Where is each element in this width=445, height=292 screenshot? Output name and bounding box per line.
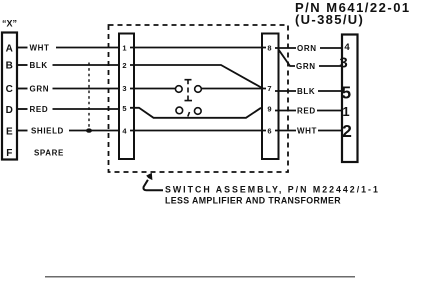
svg-text:SPARE: SPARE — [34, 149, 64, 158]
svg-text:GRN: GRN — [296, 62, 316, 71]
svg-text:D: D — [6, 105, 13, 116]
svg-text:2: 2 — [342, 121, 352, 141]
svg-text:B: B — [6, 61, 13, 72]
wire pin4 to pin6 — [130, 130, 266, 132]
svg-text:8: 8 — [267, 44, 271, 53]
wire ORN to pin 4 — [320, 47, 346, 49]
svg-text:WHT: WHT — [30, 44, 50, 53]
wire pin7 to BLK — [275, 90, 296, 92]
svg-text:6: 6 — [267, 127, 271, 136]
junction dot shield — [86, 128, 92, 132]
svg-text:9: 9 — [267, 105, 271, 114]
svg-text:BLK: BLK — [30, 61, 48, 70]
svg-text:1: 1 — [342, 104, 349, 119]
svg-text:LESS AMPLIFIER AND TRANSFORMER: LESS AMPLIFIER AND TRANSFORMER — [165, 196, 341, 206]
wire pin1 to pin8 — [130, 47, 266, 49]
wire pin5 to pin9 (bypass) — [130, 108, 261, 118]
tick pin B — [17, 64, 28, 66]
wire contact to pin7 — [201, 88, 266, 90]
svg-text:C: C — [6, 84, 13, 95]
wire pin6 to WHT — [275, 130, 296, 132]
switch contact top-left — [175, 86, 182, 93]
switch assembly dashed box — [109, 25, 289, 172]
wire pin2 to pin7 — [130, 65, 263, 89]
tick pin D — [17, 108, 28, 110]
wire D-RED to pin 5 — [53, 108, 123, 110]
svg-text:WHT: WHT — [297, 127, 317, 136]
svg-text:5: 5 — [341, 83, 351, 103]
actuator link dash — [187, 88, 189, 93]
svg-text:SHIELD: SHIELD — [31, 127, 64, 136]
connector X body — [2, 33, 17, 160]
wire pin3 to contact — [130, 88, 176, 90]
svg-text:4: 4 — [344, 42, 350, 53]
svg-text:E: E — [6, 127, 13, 138]
wire GRN to pin 3 — [319, 65, 346, 67]
connector bar switch output — [262, 34, 279, 160]
tick pin C — [17, 88, 28, 90]
svg-text:3: 3 — [339, 55, 347, 72]
callout leader line — [143, 180, 163, 191]
actuator link lower dash — [188, 112, 190, 117]
svg-text:(U-385/U): (U-385/U) — [295, 12, 364, 27]
actuator link top T — [185, 80, 192, 85]
svg-text:1: 1 — [122, 44, 126, 53]
svg-text:2: 2 — [122, 61, 126, 70]
svg-text:3: 3 — [122, 84, 126, 93]
wire WHT to pin 2 — [318, 130, 346, 132]
svg-text:SWITCH ASSEMBLY, P/N M22442/1-: SWITCH ASSEMBLY, P/N M22442/1-1 — [165, 185, 380, 195]
wire pin8 branch to GRN (diagonal) — [279, 50, 296, 67]
page rule line — [45, 276, 355, 278]
wire E-SHIELD to pin 4 — [69, 130, 123, 132]
wire A-WHT to pin 1 — [56, 47, 123, 49]
connector P/N M641/22-01 body — [342, 35, 358, 163]
svg-text:“X”: “X” — [2, 19, 17, 29]
actuator link bottom T — [185, 96, 193, 101]
switch contact top-right — [195, 86, 202, 93]
svg-text:5: 5 — [122, 104, 126, 113]
shield drain dashed line — [88, 63, 90, 131]
wire C-GRN to pin 3 — [53, 88, 123, 90]
callout arrowhead — [146, 173, 152, 180]
tick pin A — [17, 47, 28, 49]
wire RED to pin 1 — [317, 110, 346, 112]
wire BLK to pin 5 — [318, 90, 346, 92]
svg-text:F: F — [6, 148, 12, 159]
tick pin E — [17, 130, 28, 132]
svg-text:A: A — [6, 43, 13, 54]
svg-text:BLK: BLK — [297, 87, 315, 96]
wire pin8 to ORN — [275, 47, 296, 49]
switch contact bottom-left — [176, 107, 183, 114]
wire B-BLK to pin 2 — [53, 64, 123, 66]
svg-text:7: 7 — [267, 84, 271, 93]
connector bar switch input — [119, 34, 134, 160]
switch contact bottom-right — [194, 108, 201, 115]
svg-text:RED: RED — [30, 105, 49, 114]
svg-text:GRN: GRN — [30, 85, 50, 94]
svg-text:ORN: ORN — [297, 44, 317, 53]
svg-text:RED: RED — [297, 107, 316, 116]
wire pin9 to RED — [275, 110, 296, 112]
